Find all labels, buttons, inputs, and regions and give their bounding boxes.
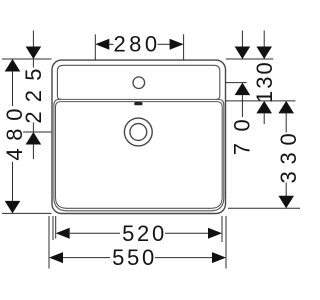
washbasin deck inner rim line <box>57 65 219 99</box>
drain outer circle <box>124 118 152 146</box>
bowl outer outline (shelf edge + sides + front) <box>54 99 224 210</box>
svg-text:330: 330 <box>276 127 300 184</box>
faucet hole <box>133 77 145 89</box>
dimension 330 <box>276 101 301 208</box>
bowl inner wall line <box>56 102 223 209</box>
dimension 550 <box>49 245 226 270</box>
extension line 550 left <box>48 216 50 269</box>
extension line bottom-left <box>2 212 52 214</box>
extension line 520 right <box>221 216 223 242</box>
extension line top-right <box>226 58 273 60</box>
extension line outer-edge left below basin <box>52 216 54 240</box>
svg-text:130: 130 <box>252 60 277 103</box>
dimension 225 <box>21 31 46 160</box>
dimension 480 <box>2 59 27 213</box>
extension line shelf right <box>226 100 296 102</box>
extension line 550 right <box>225 216 227 269</box>
svg-text:70: 70 <box>229 108 254 155</box>
extension line faucet-center right <box>226 82 247 84</box>
extension line 280 right <box>183 34 185 60</box>
extension line bowl-bottom right <box>228 207 300 209</box>
dimension 70 <box>229 31 254 156</box>
svg-text:520: 520 <box>122 221 167 246</box>
extension line 520 left <box>55 216 57 239</box>
extension line drain-center left <box>23 131 52 133</box>
dimension 520 <box>56 221 222 246</box>
extension line top-left <box>2 58 52 60</box>
drain inner circle <box>130 124 147 141</box>
dimension 280 <box>95 32 183 57</box>
overflow slot <box>134 102 142 105</box>
extension line 280 left <box>94 34 96 60</box>
svg-text:550: 550 <box>112 245 157 270</box>
svg-text:280: 280 <box>114 32 161 57</box>
dimension 130 <box>252 31 277 125</box>
svg-text:480: 480 <box>2 101 27 161</box>
washbasin outer outline <box>52 60 226 213</box>
